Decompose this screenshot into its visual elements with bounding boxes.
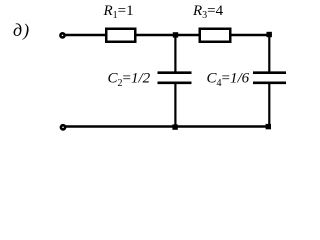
wire bottom [66,125,271,128]
terminal input bottom [61,125,65,129]
node junction dot bottom C4 [266,124,271,129]
wire R1 to R3 [136,34,199,37]
resistor R1 [106,29,135,42]
svg-text:R3=4: R3=4 [192,3,224,21]
node A junction dot [173,32,178,37]
terminal input top [60,33,64,37]
svg-text:C4=1/6: C4=1/6 [207,71,250,89]
wire R3 to top-right corner [231,34,270,37]
capacitor C4 [253,71,286,74]
wire C4 upper lead [268,36,270,73]
svg-text:R1=1: R1=1 [103,3,134,21]
wire C4 lower lead [268,83,270,127]
wire C2 upper lead [174,35,176,73]
wire top-left [65,34,106,37]
svg-text:д): д) [13,20,30,41]
node junction dot bottom C2 [172,124,177,129]
resistor R3 [200,29,231,42]
node corner dot top-right [267,32,272,37]
svg-text:C2=1/2: C2=1/2 [108,71,151,89]
capacitor C2 [158,71,192,74]
wire C2 lower lead [174,83,176,127]
